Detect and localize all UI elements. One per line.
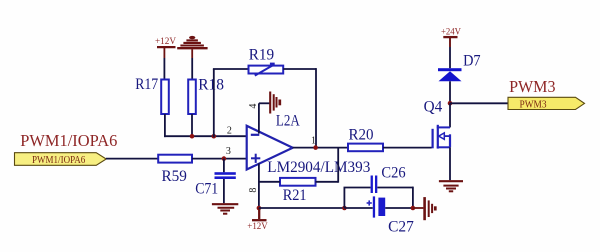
wire pin2 bus	[164, 135, 247, 137]
svg-text:2: 2	[227, 126, 232, 137]
resistor R21	[280, 178, 316, 204]
resistor R20	[348, 126, 383, 151]
wire +12V to R17	[163, 58, 165, 80]
ground under Q4	[439, 181, 463, 191]
svg-text:+12V: +12V	[155, 37, 176, 47]
pin 4 label	[248, 104, 259, 109]
capacitor C71	[195, 159, 236, 204]
wire Q4 source to ground	[449, 147, 451, 180]
pin 8 label	[248, 188, 259, 193]
wire output row	[293, 147, 348, 149]
diode D7	[438, 53, 481, 82]
ground under C71	[212, 204, 238, 214]
svg-text:+12V: +12V	[247, 222, 268, 232]
wire feedback left	[213, 69, 249, 137]
power +12V top	[155, 37, 176, 58]
svg-text:R17: R17	[135, 76, 158, 93]
capacitor C27 (polarized)	[367, 196, 414, 235]
wire earth to R18	[191, 58, 193, 80]
wire node to Q4 drain	[449, 103, 451, 127]
svg-text:R18: R18	[198, 77, 224, 94]
svg-text:1: 1	[311, 136, 316, 147]
wire pin4	[259, 103, 270, 133]
signal ground pin4	[270, 92, 280, 114]
svg-text:3: 3	[226, 146, 231, 157]
resistor R17	[135, 76, 169, 114]
pin 1 label	[311, 136, 316, 147]
wire node to PWM3 flag	[450, 102, 508, 104]
wire R21 left	[259, 181, 280, 183]
svg-text:4: 4	[248, 104, 259, 109]
svg-text:R19: R19	[249, 46, 274, 63]
wire input row right	[192, 158, 247, 160]
wire loop bottom	[344, 207, 413, 209]
svg-text:R59: R59	[162, 168, 187, 185]
junction dot feedback/bus	[212, 134, 217, 139]
junction dot +12V bottom	[257, 206, 262, 211]
resistor R19 (trimmer)	[249, 46, 284, 75]
capacitor C26	[371, 165, 406, 193]
svg-text:R20: R20	[349, 126, 374, 143]
junction dot R18/bus	[190, 134, 195, 139]
wire pin8	[258, 163, 260, 208]
svg-text:Q4: Q4	[424, 99, 443, 116]
resistor R59	[158, 155, 192, 185]
junction dot loop right	[411, 206, 416, 211]
svg-text:R21: R21	[283, 187, 307, 204]
svg-text:C71: C71	[195, 180, 218, 197]
svg-text:PWM3: PWM3	[520, 100, 547, 111]
svg-text:PWM3: PWM3	[509, 77, 555, 96]
wire R18 to node	[191, 114, 193, 136]
power +24V	[441, 27, 461, 47]
junction dot drain node	[448, 101, 453, 106]
net flag PWM1/IOPA6	[15, 131, 118, 166]
wire bottom bus	[259, 207, 345, 209]
junction dot output/feedback	[313, 145, 318, 150]
svg-text:D7: D7	[463, 53, 481, 70]
svg-text:8: 8	[248, 188, 259, 193]
wire R21 right to output	[316, 148, 339, 183]
signal ground right of C27	[413, 197, 435, 220]
wire input row left	[106, 158, 158, 160]
svg-text:+24V: +24V	[441, 27, 461, 37]
pin 2 label	[227, 126, 232, 137]
svg-text:LM2904/LM393: LM2904/LM393	[267, 159, 370, 176]
svg-text:L2A: L2A	[276, 112, 300, 129]
junction dot C71 node	[222, 156, 227, 161]
pin 3 label	[226, 146, 231, 157]
svg-text:PWM1/IOPA6: PWM1/IOPA6	[20, 131, 117, 150]
net flag PWM3	[508, 77, 585, 111]
wire loop top right/right edge	[377, 187, 413, 208]
wire feedback right	[283, 68, 316, 148]
svg-text:PWM1/IOPA6: PWM1/IOPA6	[32, 155, 85, 166]
svg-text:C27: C27	[388, 219, 414, 236]
wire loop left/top	[344, 188, 371, 209]
op-amp L2A LM2904/LM393	[247, 112, 371, 176]
resistor R18	[188, 77, 224, 114]
wire R17 to node	[164, 114, 166, 137]
wire +24V to D7	[449, 47, 451, 68]
wire D7 to node	[449, 81, 451, 103]
svg-text:C26: C26	[381, 165, 405, 182]
power +12V bottom	[247, 208, 268, 232]
wire R20 to gate	[383, 147, 432, 149]
transistor Q4 (NMOS)	[424, 99, 450, 149]
ground earth top	[177, 36, 207, 58]
junction dot loop left	[342, 206, 347, 211]
